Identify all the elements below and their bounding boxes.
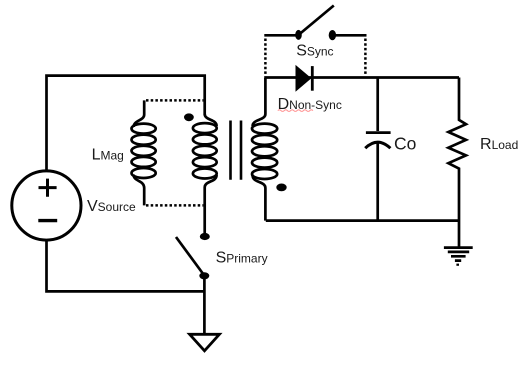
svg-text:Co: Co <box>394 134 416 154</box>
svg-text:SSync: SSync <box>296 43 333 60</box>
svg-text:RLoad: RLoad <box>480 136 518 153</box>
svg-text:LMag: LMag <box>92 146 124 163</box>
svg-text:SPrimary: SPrimary <box>216 249 268 266</box>
svg-text:VSource: VSource <box>87 198 136 215</box>
